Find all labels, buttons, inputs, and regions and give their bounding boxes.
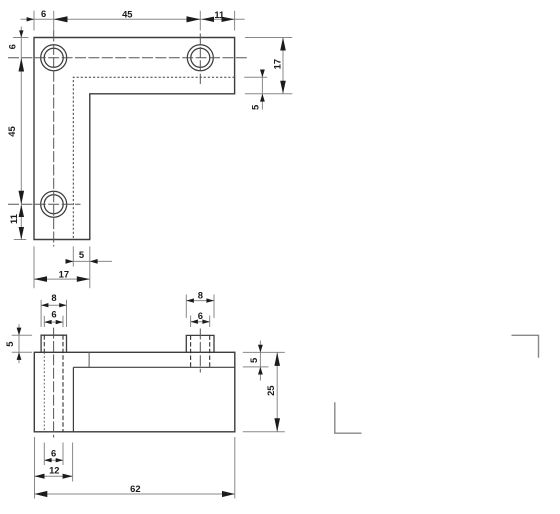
svg-text:8: 8 [51,292,56,303]
arrow 6 left boss l [44,320,51,324]
arrow 62 r [222,491,235,497]
dim text 5 right [250,105,261,110]
arrow 5 front left bottom [17,352,22,360]
arrow 5 front right top [258,345,263,353]
dim text 8 right boss [198,290,203,301]
arrow dim5 right bottom [260,94,265,102]
svg-text:25: 25 [265,385,276,395]
extension tick front left y=335.2 [12,334,32,336]
dim line 6 front bottom [44,459,63,461]
svg-text:6: 6 [51,448,56,459]
centerline vertical hole2 [199,33,201,84]
extension line front bottom x=72.6 [72,442,74,481]
extension tick front right y=366.8 [243,366,269,368]
extension line bottom x=89.8 [89,246,91,288]
arrow 6 right boss l [191,319,198,323]
dim line 17 right [282,38,284,94]
extension tick y=239.5 left [14,238,26,240]
svg-text:6: 6 [41,8,46,19]
dim text 5 front right [248,358,259,363]
hidden hole edge right boss x=190.6 [190,335,192,367]
arrow dim11 left [202,17,215,22]
arrow 25 top [274,352,280,366]
extension tick front right y=352.5 [243,351,285,353]
dim text 25 front right [265,385,276,395]
dim text 6 right boss [198,310,203,321]
arrow 12 r [63,474,73,479]
extension tick y=37.5 left [13,36,29,38]
corner mark bottom-left [335,402,362,433]
svg-text:11: 11 [214,9,224,20]
arrow 8 left boss r [59,303,66,307]
arrow dim17 top [280,38,286,51]
arrow dim5 right top [260,69,265,77]
arrow 8 left boss l [41,303,48,307]
top view hidden step edge (dotted L) [73,77,234,239]
dim text 17 right [272,59,283,69]
extension tick right boss x=209.7 [209,315,211,327]
arrow 5 front right bottom [258,367,263,375]
extension line bottom x=73.3 [72,246,74,266]
arrow dim5 bottom right [90,259,98,264]
hole H2 top-right (outer circle) [187,45,213,71]
centerline front right boss [199,328,201,372]
centerline horizontal row2 [8,203,81,205]
extension tick x=200.3 [199,11,201,31]
dim line 17 bottom [34,278,90,280]
extension tick x=34 [33,11,35,31]
dim line 8 right boss [186,300,214,302]
extension tick x=53.7 [53,11,55,31]
svg-text:6: 6 [198,310,203,321]
extension line right top y=37.5 [245,36,292,38]
svg-text:8: 8 [198,290,203,301]
dim text 62 front bottom [130,483,140,494]
extension line front bottom x=63 [62,442,64,465]
dim text 12 front bottom [49,465,59,476]
svg-text:62: 62 [130,483,140,494]
extension line bottom x=34 [33,246,35,288]
front view step vertical edge [72,367,74,432]
dim line 6 right boss [191,321,210,323]
front view step horizontal edge [73,366,234,368]
dim line 5 front right [259,340,261,380]
dim line 5 front left [18,324,20,363]
svg-text:5: 5 [248,358,259,363]
arrow dim45 right [187,16,201,22]
extension tick right boss x=190.6 [190,315,192,327]
dim line 25 front right [276,352,278,431]
arrow dim11 right [222,17,235,22]
dim text 11 top [214,9,224,20]
front view left boss outline [41,335,66,352]
arrow 8 right boss l [186,298,194,302]
svg-text:5: 5 [79,249,84,260]
dim text 8 left boss [51,292,56,303]
extension line right y=93.8 [245,93,292,95]
dim text 5 front left [4,342,15,347]
svg-text:6: 6 [51,309,56,320]
arrow outside-top at y=37.5 [19,30,23,37]
svg-text:12: 12 [49,465,59,476]
svg-text:17: 17 [59,268,69,279]
centerline front left boss [53,328,55,438]
extension tick front right y=432 [243,431,285,433]
svg-text:11: 11 [8,214,19,224]
arrow dim45 bottom [19,191,25,205]
extension tick left boss x=41.1 [40,300,42,327]
dim line 5 right vertical [261,69,263,109]
front view body outline [34,352,235,432]
dim line 62 front bottom [34,493,234,495]
svg-text:17: 17 [272,59,283,69]
top view part outline [34,37,235,239]
hole H2 top-right (inner circle) [191,48,210,67]
arrow dim11 top [19,205,24,217]
extension line right y=77.3 [244,76,267,78]
arrow 12 l [34,474,44,479]
svg-text:45: 45 [6,126,17,136]
extension tick left boss x=66.5 [65,300,67,327]
dim line 12 front bottom [34,475,72,477]
dim line 5 bottom [65,260,112,262]
extension tick right boss x=186.3 [185,294,187,318]
arrow 6 front bottom l [44,458,51,462]
arrow dim17 bottom [280,81,286,94]
dim text 45 left [6,126,17,136]
arrow dim45 left [54,16,68,22]
arrow 8 right boss r [206,298,214,302]
dim text 17 bottom [59,268,69,279]
dim text 45 top [122,9,132,20]
corner mark top-right [511,335,538,358]
arrow dim45 top (shared with 6 bottom) [19,58,25,72]
dim line 6 left boss [44,321,63,323]
arrow dim5 bottom left [65,259,73,264]
front view right boss outline [186,335,214,352]
front view short edge x=89.1 [88,352,90,367]
left dimension line column [20,26,22,239]
arrow 6 left boss r [56,320,63,324]
hidden hole edge left boss x=44.3 lower [43,352,45,432]
hole H3 bottom-left (outer circle) [41,191,67,217]
dim text 6 front bottom [51,448,56,459]
arrow outside-left at x=34 [27,17,34,21]
svg-text:5: 5 [250,105,261,110]
dim text 6 left [6,44,17,49]
dim line 8 left boss [41,304,66,306]
extension tick left boss x=63 [62,316,64,327]
extension tick right boss x=214 [213,294,215,318]
arrow 62 l [34,491,47,497]
centerline horizontal row1 [8,57,249,59]
dim text 6 left boss [51,309,56,320]
extension tick x=234.6 [234,11,236,31]
arrow 6 right boss r [202,319,209,323]
arrow 5 front left top [17,328,22,336]
arrow dim17 bottom-right [77,276,90,282]
extension line front bottom x=44.3 [43,442,45,465]
extension line front bottom x=34.5 [33,437,35,499]
extension tick left boss x=44.3 [43,316,45,327]
centerline vertical col1 [53,30,55,246]
dim text 5 bottom [79,249,84,260]
hole H3 bottom-left (inner circle) [44,195,63,214]
svg-text:45: 45 [122,9,132,20]
dim text 6 top [41,8,46,19]
extension line front bottom x=235 [234,437,236,499]
hidden hole edge left boss x=44.3 upper [43,335,45,352]
svg-text:6: 6 [6,44,17,49]
arrow dim17 bottom-left [34,276,47,282]
svg-text:5: 5 [4,342,15,347]
hole H1 top-left (inner circle) [44,48,63,67]
extension tick front left y=352.3 [12,351,32,353]
arrow dim11 bottom [19,227,24,240]
hole H1 top-left (outer circle) [41,45,67,71]
hidden hole edge left boss x=63 [62,335,64,432]
arrow 6 front bottom r [56,458,63,462]
arrow 25 bottom [274,418,280,432]
dim text 11 left [8,214,19,224]
top dimension line row [21,18,245,20]
hidden hole edge right boss x=209.7 [209,335,211,367]
